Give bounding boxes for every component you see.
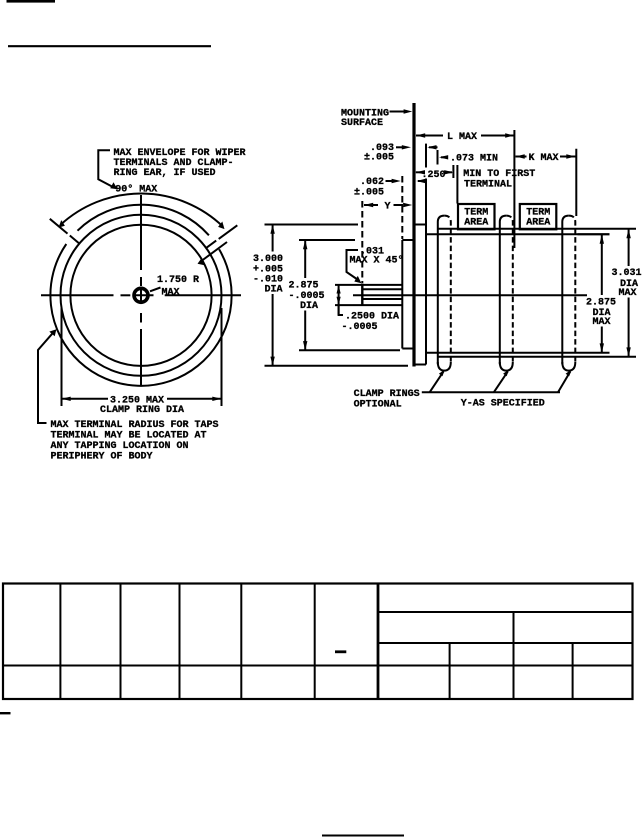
table: dash cell content bbox=[335, 650, 346, 653]
front view: max envelope circle r=90 (gaps at 36 and 140 deg) bbox=[78, 205, 209, 236]
front view: 90 deg arc arrowheads bbox=[218, 222, 224, 230]
side view: Y dimension bbox=[364, 203, 412, 207]
side view: flange top edge bbox=[402, 239, 412, 241]
front view: 1.750 R radius leader bbox=[200, 242, 227, 262]
side view: mounting surface line bbox=[412, 103, 415, 367]
side view: clamp ring 2 bbox=[500, 216, 513, 371]
svg-text:SURFACE: SURFACE bbox=[341, 118, 383, 129]
side view: shaft bottom edge bbox=[364, 298, 402, 300]
front view: shaft hole ring bbox=[134, 288, 148, 302]
svg-text:L MAX: L MAX bbox=[447, 132, 477, 143]
svg-text:.073 MIN: .073 MIN bbox=[450, 153, 498, 164]
svg-text:.2500 DIA: .2500 DIA bbox=[345, 311, 399, 322]
table: right section header lines bbox=[378, 612, 633, 699]
page header stub bar bbox=[7, 0, 56, 3]
side view: shaft lower ext line bbox=[335, 304, 402, 306]
svg-text:±.005: ±.005 bbox=[364, 152, 394, 163]
svg-text:AREA: AREA bbox=[526, 217, 550, 228]
front view: body circle r=70 bbox=[70, 225, 211, 366]
side view: washer bottom edge bbox=[416, 364, 427, 366]
front view: horizontal centerline bbox=[41, 294, 241, 296]
side view: clamp ring 1 bbox=[438, 216, 451, 371]
front view: 3.250 dim extension lines bbox=[61, 308, 63, 406]
side view: shaft end face bbox=[361, 284, 363, 306]
side view: flange left face bbox=[401, 240, 403, 349]
front view: envelope boundary tick at 36deg bbox=[206, 241, 217, 249]
footnote dash bbox=[0, 712, 11, 714]
svg-text:Y: Y bbox=[385, 201, 391, 212]
front view: shaft leader to MAX text bbox=[150, 288, 161, 292]
side view: L MAX dimension bbox=[416, 130, 514, 248]
svg-text:MAX X 45°: MAX X 45° bbox=[350, 254, 404, 266]
svg-text:DIA: DIA bbox=[265, 284, 283, 295]
side view: shaft upper ext line bbox=[335, 284, 402, 286]
side view: 2.875 dia max dimension (right) bbox=[578, 234, 610, 352]
svg-text:RING EAR, IF USED: RING EAR, IF USED bbox=[114, 168, 216, 179]
page header rule bbox=[8, 45, 211, 47]
table: column lines bbox=[60, 584, 378, 700]
table: outer border bbox=[3, 584, 633, 700]
page number underline bbox=[322, 835, 404, 837]
svg-text:Y-AS SPECIFIED: Y-AS SPECIFIED bbox=[461, 399, 545, 410]
front view: clamp ring circle r=80 bbox=[61, 215, 222, 376]
svg-text:1.750 R: 1.750 R bbox=[157, 275, 199, 286]
front view: 3.250 dimension line bbox=[62, 398, 109, 400]
front view: vertical centerline bbox=[140, 195, 142, 386]
svg-text:MIN TO FIRST: MIN TO FIRST bbox=[463, 169, 535, 180]
side view: shaft end dashed extension (Y ref) bbox=[361, 201, 363, 283]
svg-text:MAX: MAX bbox=[162, 287, 180, 298]
front view: envelope boundary tick at 140deg bbox=[70, 236, 80, 244]
side view: .250 dimension bbox=[416, 165, 458, 204]
svg-text:CLAMP RING DIA: CLAMP RING DIA bbox=[100, 405, 184, 416]
side view: .2500 dia arrows bbox=[338, 285, 340, 315]
svg-text:2.875: 2.875 bbox=[289, 280, 319, 291]
side view: flange left face dashed ext (.062) bbox=[401, 176, 403, 239]
svg-text:90° MAX: 90° MAX bbox=[115, 183, 157, 195]
side view: term area box 2 bbox=[520, 204, 557, 229]
svg-text:TERMINAL: TERMINAL bbox=[464, 179, 512, 190]
side view: .073 MIN tick and arrow bbox=[438, 150, 449, 165]
side view: body bottom envelope line (3.031) bbox=[438, 356, 636, 358]
side view: chamfer leader bracket bbox=[347, 250, 359, 280]
side view: body top edge (2.875) bbox=[426, 233, 610, 235]
side view: .062 dimension arrows bbox=[386, 179, 426, 183]
svg-text:K MAX: K MAX bbox=[529, 153, 559, 164]
svg-text:.062: .062 bbox=[360, 177, 384, 188]
side view: 2.875 bushing dia dimension bbox=[299, 240, 400, 350]
side view: body top envelope line (3.031) bbox=[438, 228, 636, 230]
side view: axis centerline bbox=[353, 294, 587, 296]
side view: shaft top edge bbox=[364, 288, 402, 290]
svg-text:±.005: ±.005 bbox=[354, 187, 384, 198]
front view: taps note leader bbox=[38, 333, 53, 423]
table: bottom row divider bbox=[3, 665, 633, 667]
side view: clamp ring 3 bbox=[562, 216, 575, 371]
side view: clamp rings leader line bbox=[422, 369, 572, 392]
svg-text:CLAMP RINGS: CLAMP RINGS bbox=[354, 389, 420, 400]
side view: .093 dimension arrows bbox=[396, 145, 438, 149]
side view: .2500 text leader bbox=[339, 305, 343, 315]
svg-text:3.031: 3.031 bbox=[612, 268, 642, 279]
side view: 3.031 dia max dimension (right) bbox=[626, 229, 630, 357]
front view: 90 deg dimension arc bbox=[60, 194, 223, 227]
svg-text:-.0005: -.0005 bbox=[342, 322, 378, 333]
svg-text:3.000: 3.000 bbox=[253, 254, 283, 265]
svg-text:TERMINAL MAY BE LOCATED AT: TERMINAL MAY BE LOCATED AT bbox=[51, 431, 207, 442]
svg-text:ANY TAPPING LOCATION ON: ANY TAPPING LOCATION ON bbox=[51, 441, 189, 452]
side view: term area box 1 bbox=[458, 204, 495, 229]
svg-text:MAX: MAX bbox=[619, 288, 637, 299]
side view: 3.000 dia dimension bbox=[265, 225, 409, 366]
svg-text:.250: .250 bbox=[422, 170, 446, 181]
svg-text:MAX: MAX bbox=[593, 317, 611, 328]
front view: note leader (max envelope) bbox=[98, 150, 112, 186]
side view: washer top edge bbox=[416, 224, 427, 226]
side view: flange bottom edge bbox=[402, 348, 412, 350]
svg-text:MAX TERMINAL RADIUS FOR TAPS: MAX TERMINAL RADIUS FOR TAPS bbox=[51, 420, 219, 431]
svg-text:AREA: AREA bbox=[464, 217, 488, 228]
side view: body bottom edge (2.875) bbox=[426, 352, 610, 354]
side view: K MAX dimension bbox=[516, 149, 577, 216]
svg-text:OPTIONAL: OPTIONAL bbox=[354, 400, 402, 411]
svg-text:DIA: DIA bbox=[300, 301, 318, 312]
side view: washer right face bbox=[425, 144, 427, 168]
svg-text:PERIPHERY OF BODY: PERIPHERY OF BODY bbox=[51, 452, 153, 463]
side view: mounting surface leader bbox=[390, 111, 408, 113]
svg-text:2.875: 2.875 bbox=[586, 297, 616, 308]
